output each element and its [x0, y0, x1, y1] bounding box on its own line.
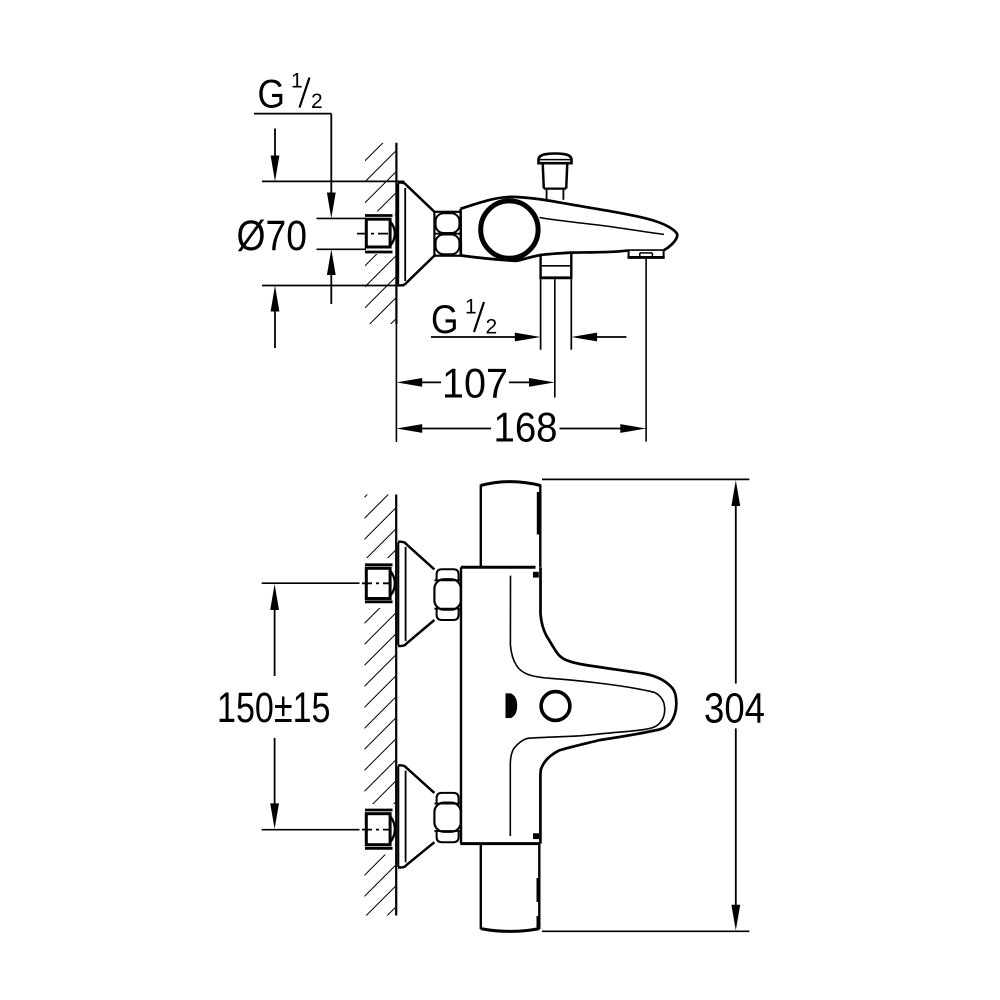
wall surface extension line [395, 324, 397, 442]
svg-text:150±15: 150±15 [217, 684, 331, 732]
label G 1/2 (middle, shower outlet) [431, 296, 497, 342]
wall (hatched) top view [363, 143, 396, 324]
dark side highlight [537, 492, 541, 535]
svg-text:107: 107 [442, 360, 508, 407]
hex nut top view [434, 212, 460, 256]
dimension 304 [542, 479, 749, 931]
svg-text:1: 1 [291, 70, 303, 93]
svg-text:168: 168 [494, 403, 558, 450]
handle wing (front view) outer contour [540, 567, 676, 843]
svg-text:2: 2 [486, 315, 498, 338]
lower column [480, 844, 482, 929]
escutcheon (lower connection) [398, 765, 434, 867]
temperature mark (black D) [506, 693, 518, 718]
top contour to tip [461, 197, 678, 250]
handle wing inner contour + column seam line [510, 576, 664, 836]
aerator extension line [645, 259, 647, 442]
hex nut (lower connection) [434, 793, 460, 842]
shower hose outlet below body [539, 253, 572, 398]
dimension 150±15 [262, 583, 360, 830]
svg-text:2: 2 [311, 90, 323, 113]
top shoulder [461, 566, 536, 569]
spout aerator [628, 250, 665, 257]
diverter knob on top [539, 154, 572, 200]
bottom contour [461, 250, 629, 261]
wall union square nut (lower) [362, 810, 395, 848]
svg-text:G: G [258, 72, 286, 116]
upper column sides [480, 485, 482, 568]
hose center line [554, 279, 556, 397]
G1/2 dimension arrows at wall nut [327, 114, 336, 304]
centerline [357, 233, 389, 235]
bottom shoulder [460, 842, 540, 845]
spout mid line [540, 218, 665, 235]
wall union square nut (top view) [317, 216, 395, 253]
top cap [481, 482, 541, 486]
svg-text:304: 304 [704, 685, 765, 733]
mixer column (front view) [460, 482, 540, 932]
Ø70 dimension [262, 129, 405, 349]
left face [459, 209, 462, 256]
svg-text:G: G [431, 298, 459, 342]
knob circle front view [541, 692, 570, 721]
thermostat knob circle (top view) [481, 201, 538, 258]
escutcheon (upper connection) [398, 542, 434, 646]
wall (hatched) bottom view [363, 495, 396, 916]
wall union square nut (upper) [362, 565, 395, 602]
thread extension lines [540, 279, 542, 350]
dimension 107 [396, 378, 554, 387]
escutcheon top view [398, 183, 434, 286]
hex nut (upper connection) [434, 569, 460, 620]
faucet body (top view) [461, 197, 678, 261]
body left edge [460, 567, 462, 843]
svg-text:Ø70: Ø70 [237, 212, 308, 260]
label G 1/2 (top left) [254, 70, 331, 117]
dimension 168 [396, 424, 646, 433]
thread extension lines [317, 217, 367, 219]
svg-text:1: 1 [465, 296, 477, 319]
small detail dots [533, 572, 539, 578]
